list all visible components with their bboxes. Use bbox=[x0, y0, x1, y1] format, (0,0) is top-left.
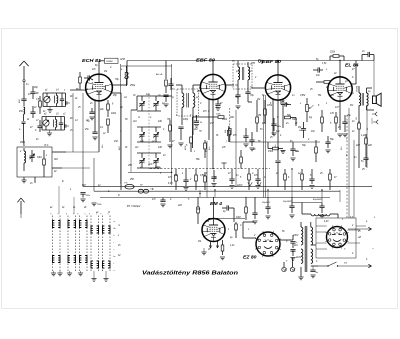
svg-text:3M: 3M bbox=[258, 115, 261, 117]
svg-text:440p: 440p bbox=[155, 166, 161, 169]
capacitor C23 bbox=[309, 178, 314, 180]
transformer ground bbox=[298, 276, 303, 278]
resistor R17 bbox=[197, 207, 200, 213]
oscillator box bbox=[17, 147, 52, 177]
wire v link 2 bbox=[291, 169, 293, 197]
resistor R31 bbox=[321, 117, 324, 123]
svg-text:25µ: 25µ bbox=[346, 115, 352, 117]
svg-text:pr: pr bbox=[171, 96, 174, 99]
antenna symbol bbox=[23, 66, 25, 79]
osc box exit wires bbox=[52, 151, 66, 153]
tube U3 EBF80 second bbox=[265, 75, 290, 100]
tuning gang section 1 bbox=[139, 103, 144, 105]
wire mid v1 bbox=[235, 110, 237, 187]
svg-text:20p: 20p bbox=[33, 87, 39, 89]
capacitor C21 bbox=[229, 178, 234, 180]
ground osc bbox=[21, 179, 26, 181]
svg-text:250: 250 bbox=[129, 179, 135, 181]
wire gang t1 bbox=[131, 109, 137, 111]
wire EBF80a grid bbox=[199, 87, 201, 89]
resistor R23 bbox=[248, 174, 251, 180]
wire top HT bus bbox=[127, 60, 352, 62]
antenna coupling node bbox=[23, 80, 25, 82]
capacitor C27 bbox=[168, 83, 173, 85]
wire speaker top bbox=[367, 87, 373, 89]
svg-text:AVC: AVC bbox=[118, 145, 121, 151]
mains transformer primary bbox=[301, 227, 303, 245]
resistor R15 fb bbox=[358, 123, 361, 129]
wire EBF80a cath down bbox=[212, 99, 214, 168]
wire ECH81 cathode down bbox=[98, 100, 100, 152]
capacitor C16 bbox=[342, 121, 347, 123]
ground c10 bbox=[215, 103, 220, 105]
resistor R7 bbox=[204, 143, 207, 149]
wire v link 1 bbox=[261, 61, 263, 65]
svg-text:s: s bbox=[114, 249, 115, 251]
oscillator coil L3 bbox=[24, 151, 26, 163]
volume pot bbox=[306, 105, 309, 112]
wire EBF80a right pin bbox=[225, 84, 234, 86]
resistor R24 bbox=[284, 174, 287, 180]
T2 core bbox=[241, 67, 243, 80]
capacitor C29 bbox=[290, 148, 295, 150]
svg-text:NS108: NS108 bbox=[357, 85, 359, 92]
cap right c1 bbox=[65, 101, 67, 105]
wire t2 gnd bbox=[235, 105, 240, 107]
wire EBF80b cath bbox=[277, 100, 279, 160]
trimmer C3 bbox=[43, 120, 49, 126]
ground C7 bbox=[89, 116, 94, 118]
resistor R29 bbox=[165, 80, 168, 86]
bus left ends bbox=[82, 152, 84, 187]
svg-text:5M: 5M bbox=[318, 95, 321, 97]
resistor R8 bbox=[229, 129, 232, 135]
IF transformer T1 box bbox=[177, 89, 199, 116]
svg-text:230V: 230V bbox=[292, 235, 299, 237]
svg-text:KL: KL bbox=[367, 128, 369, 130]
T1 top wires bbox=[176, 84, 182, 86]
capacitor C20 bbox=[183, 179, 188, 181]
svg-text:1M: 1M bbox=[298, 127, 301, 129]
svg-text:pr2: pr2 bbox=[235, 70, 240, 73]
svg-text:6,3V: 6,3V bbox=[168, 183, 173, 185]
resistor R16 fb2 bbox=[365, 138, 368, 144]
svg-text:25p: 25p bbox=[112, 95, 118, 97]
wire EBF80a anode up bbox=[212, 61, 214, 75]
svg-text:6,3V: 6,3V bbox=[324, 221, 329, 223]
resistor R4 bbox=[107, 119, 110, 125]
band switch section S5 bbox=[102, 216, 104, 272]
svg-text:300k: 300k bbox=[292, 119, 298, 121]
resistor R10 bbox=[285, 116, 291, 119]
wire EM4 bottom pins bbox=[210, 241, 212, 248]
svg-text:AV: AV bbox=[119, 106, 123, 109]
svg-text:AVC: AVC bbox=[147, 163, 153, 166]
wire ECH81 pin right2 bbox=[111, 92, 122, 94]
wire cluster2 bottom bbox=[42, 129, 65, 131]
band switch section S3 bbox=[79, 216, 81, 272]
svg-text:BT = 6324µ2: BT = 6324µ2 bbox=[127, 205, 141, 208]
capacitor C8 bbox=[92, 131, 97, 133]
oscillator resistor bbox=[43, 159, 46, 165]
gang mechanical link bbox=[148, 94, 150, 170]
svg-text:220: 220 bbox=[355, 145, 361, 147]
capacitor C18 bus bbox=[160, 199, 165, 201]
wire fb long bbox=[358, 140, 360, 168]
svg-text:1M: 1M bbox=[197, 209, 200, 211]
svg-text:150k: 150k bbox=[268, 151, 274, 153]
wire v link 3 bbox=[321, 190, 323, 202]
padder C2 bbox=[60, 98, 64, 100]
capacitor C10 bbox=[218, 116, 224, 119]
svg-text:2k2: 2k2 bbox=[193, 129, 198, 131]
svg-text:AVs 4k: AVs 4k bbox=[155, 73, 163, 76]
capacitor C30 bbox=[325, 141, 330, 143]
wire gang to T1 bbox=[161, 95, 172, 97]
MW antenna coil L1 bbox=[57, 96, 58, 104]
wire mains top bbox=[348, 228, 371, 230]
wire EBF80b pin a bbox=[272, 99, 274, 135]
ground cluster2 bbox=[47, 132, 52, 134]
wire EBF80b grid wire bbox=[252, 87, 266, 89]
speaker bbox=[373, 96, 377, 104]
cap 4n mains bbox=[310, 269, 315, 271]
wire EBF80b pin b bbox=[282, 99, 284, 128]
svg-text:40µ/350V: 40µ/350V bbox=[313, 198, 323, 201]
resistor R27 bbox=[39, 101, 42, 107]
capacitor C26 bbox=[37, 125, 42, 127]
wire right vertical low bbox=[366, 106, 368, 168]
resistor R30 bbox=[256, 117, 259, 123]
band switch section S2 bbox=[67, 216, 69, 272]
svg-text:450n: 450n bbox=[20, 141, 26, 144]
ground el84 bbox=[337, 133, 342, 135]
svg-text:AZ: AZ bbox=[357, 236, 362, 239]
T1 primary bbox=[182, 93, 184, 107]
tube U5 EM4 bbox=[202, 219, 225, 242]
capacitor C31 bbox=[249, 139, 254, 141]
wire osc link bbox=[66, 151, 99, 153]
T2 primary bbox=[238, 67, 240, 80]
switch ground 3 bbox=[67, 272, 72, 274]
capacitor C28 bbox=[163, 94, 168, 96]
wire ht to choke bbox=[262, 208, 268, 210]
mains transformer core bbox=[304, 226, 306, 272]
band switch section S1 bbox=[52, 216, 54, 272]
svg-text:0,5M: 0,5M bbox=[300, 95, 305, 97]
wire cluster1 top bbox=[43, 92, 66, 94]
resistor R22 bbox=[204, 176, 207, 182]
T2 trimmers bbox=[235, 94, 240, 96]
svg-text:30µ/50V: 30µ/50V bbox=[262, 202, 271, 204]
wire v link 8 bbox=[242, 197, 244, 222]
wire EM4 top bbox=[213, 197, 215, 219]
wire v link 5 bbox=[214, 190, 216, 197]
svg-text:U/3862: U/3862 bbox=[106, 61, 114, 63]
svg-text:EZ 80: EZ 80 bbox=[243, 255, 257, 260]
wire speaker leads bbox=[367, 109, 375, 111]
wire cluster2 top bbox=[42, 116, 65, 118]
wire AVC low bus bbox=[100, 197, 330, 199]
resistor R18 bbox=[235, 224, 238, 230]
wire v link 4 bbox=[267, 190, 269, 197]
oscillator trimmer C5 bbox=[29, 155, 34, 157]
EZ80 bottom jacks bbox=[282, 267, 286, 271]
tuning gang section 3 bbox=[139, 160, 144, 162]
wire EL84 anode up bbox=[339, 61, 341, 77]
capacitor C13 bbox=[301, 128, 306, 130]
capacitor C15 top right bbox=[367, 52, 369, 57]
transformer top leads bbox=[300, 222, 302, 227]
transformer sec wires bbox=[311, 244, 316, 246]
wire EZ80 top bbox=[267, 216, 269, 232]
IF transformer T2 box bbox=[233, 64, 252, 89]
wire v link 6 bbox=[199, 190, 201, 197]
capacitor C25 bbox=[30, 111, 35, 113]
ground mid1 bbox=[178, 142, 183, 144]
svg-text:EBF 80: EBF 80 bbox=[262, 59, 282, 64]
resistor R5 bbox=[169, 125, 172, 131]
resistor R32 bbox=[315, 147, 318, 153]
svg-text:1M: 1M bbox=[198, 241, 201, 243]
svg-text:250p: 250p bbox=[129, 85, 136, 87]
svg-text:110V: 110V bbox=[296, 257, 302, 259]
svg-text:25n: 25n bbox=[84, 129, 90, 131]
antenna series capacitor 450p bbox=[21, 98, 26, 100]
capacitor C19 bbox=[226, 205, 228, 210]
svg-text:100p: 100p bbox=[183, 119, 189, 121]
wire AVC bus y169 bbox=[150, 168, 270, 170]
capacitor C9 bbox=[178, 126, 183, 128]
wire ECH81 grid left bbox=[70, 89, 87, 91]
svg-text:30µ/300V: 30µ/300V bbox=[283, 201, 293, 203]
wire EBF80b anode up bbox=[277, 61, 279, 76]
svg-text:220: 220 bbox=[329, 95, 335, 97]
wire screen bbox=[351, 83, 357, 85]
capacitor C11 bbox=[271, 123, 276, 125]
tube U2 EBF80 bbox=[200, 74, 225, 99]
coupling C14 bbox=[317, 67, 319, 72]
svg-text:220: 220 bbox=[177, 205, 183, 207]
resistor R19 bbox=[221, 245, 224, 251]
junction dots top bus bbox=[212, 60, 213, 61]
wire left joiner bbox=[24, 85, 33, 87]
LW antenna coil L2 bbox=[56, 120, 57, 128]
socket wires left bbox=[316, 225, 327, 227]
wire EBF80a pin d1 bbox=[208, 99, 210, 140]
wire long vertical x73 bbox=[72, 93, 74, 152]
svg-text:OSC: OSC bbox=[37, 157, 42, 159]
resistor R11 bbox=[273, 147, 279, 150]
resistor R9 bbox=[264, 109, 267, 115]
wire heater bus 1 bbox=[83, 186, 372, 188]
output transformer secondary bbox=[367, 93, 369, 106]
label EBF 80 second bbox=[258, 60, 261, 63]
capacitor C22 bbox=[255, 178, 260, 180]
padder C4 bbox=[59, 122, 63, 124]
heater socket box bbox=[316, 218, 356, 258]
svg-text:EM 4: EM 4 bbox=[210, 201, 223, 206]
wire heater bus 2 bbox=[94, 190, 340, 192]
resistor R2 grid bbox=[79, 77, 82, 83]
svg-text:50µ: 50µ bbox=[330, 139, 335, 141]
output transformer core bbox=[361, 93, 363, 106]
tube U6 EZ80 bbox=[256, 232, 280, 256]
socket wires right bbox=[347, 229, 360, 231]
wire top bus right end bbox=[352, 60, 374, 62]
svg-text:100k: 100k bbox=[111, 113, 117, 115]
wire ECH81 anode to top bus bbox=[98, 61, 100, 76]
earth arrow bottom left bbox=[20, 201, 22, 214]
wire EZ80 right bbox=[280, 239, 293, 241]
svg-text:1M: 1M bbox=[257, 99, 260, 101]
capacitor C17 tone bbox=[363, 157, 368, 159]
resistor R3 bbox=[107, 104, 110, 110]
wire long vertical x83 up bbox=[82, 93, 84, 152]
capacitor C24 bbox=[30, 91, 35, 93]
wire ECH81 pin right1 bbox=[111, 84, 127, 86]
T1 secondary bbox=[193, 93, 195, 107]
switch ground 2 bbox=[57, 272, 62, 274]
trimmer C1 bbox=[44, 96, 50, 102]
wire box join bbox=[99, 60, 105, 62]
resistor R34 bbox=[245, 207, 248, 213]
ground C8 bbox=[92, 136, 97, 138]
wire xv1 bbox=[165, 61, 167, 80]
svg-text:pr: pr bbox=[351, 92, 354, 95]
wire cluster drop a bbox=[55, 130, 57, 152]
wire EZ80 left bbox=[243, 237, 256, 239]
capacitor C7 bbox=[89, 111, 94, 113]
wire EL84 cathode down bbox=[339, 101, 341, 130]
switch ground 5 bbox=[91, 278, 96, 280]
resistor R6 bbox=[190, 137, 193, 143]
svg-text:250: 250 bbox=[127, 165, 133, 167]
switch ground 6 bbox=[103, 278, 108, 280]
band switch section S4 bbox=[90, 216, 92, 272]
svg-text:220V: 220V bbox=[236, 185, 243, 187]
svg-text:U/38: U/38 bbox=[120, 59, 126, 61]
resistor R21 bbox=[195, 175, 198, 181]
switch ground 1 bbox=[51, 272, 56, 274]
antenna choke bbox=[24, 107, 25, 114]
switch ground 4 bbox=[78, 272, 83, 274]
ground em4b bbox=[220, 256, 225, 258]
junctions y169 bbox=[212, 168, 213, 169]
svg-text:220k: 220k bbox=[329, 52, 336, 54]
grid stopper R12 bbox=[324, 81, 330, 84]
resistor R25 bbox=[301, 174, 304, 180]
output transformer primary bbox=[359, 93, 361, 106]
svg-text:~: ~ bbox=[372, 247, 374, 251]
resistor R28 bbox=[125, 73, 128, 79]
svg-text:5M: 5M bbox=[206, 221, 209, 223]
resistor R20 bbox=[175, 175, 178, 181]
tube socket view bbox=[327, 227, 348, 248]
resistor R13 top bbox=[333, 55, 339, 58]
svg-text:Vadásztöltény R856 Balaton: Vadásztöltény R856 Balaton bbox=[142, 271, 239, 277]
svg-text:1M: 1M bbox=[104, 71, 107, 73]
svg-text:100k: 100k bbox=[222, 119, 228, 121]
mains transformer secondary bbox=[311, 227, 313, 245]
resistor R33 bbox=[240, 157, 243, 163]
capacitor C12 bbox=[284, 102, 286, 106]
capacitor C33 bbox=[252, 212, 257, 214]
T2 secondary bbox=[248, 67, 250, 80]
cap right c2 bbox=[64, 124, 66, 128]
svg-text:EL 84: EL 84 bbox=[345, 63, 359, 68]
wire band-switch feed 1 bbox=[58, 186, 60, 214]
fuse F1 bbox=[125, 184, 134, 189]
svg-text:RV: RV bbox=[350, 105, 354, 107]
svg-text:2n7: 2n7 bbox=[209, 123, 215, 125]
ground bus left bbox=[80, 192, 85, 194]
ground em4 bbox=[201, 251, 206, 253]
wire v link 7 bbox=[339, 190, 341, 202]
dial lamp box U386 bbox=[105, 58, 119, 63]
tube U1 ECH81 bbox=[86, 74, 113, 101]
svg-text:10M: 10M bbox=[236, 217, 241, 219]
capacitor C32 bbox=[243, 135, 248, 137]
filter choke bbox=[311, 214, 330, 216]
T1 leads bbox=[181, 85, 183, 93]
wire band-switch feed 2 bbox=[73, 197, 75, 214]
tube U4 EL84 bbox=[328, 77, 352, 101]
grid capacitor C6 bbox=[87, 75, 89, 80]
wire cluster1 bottom bbox=[43, 106, 66, 108]
wire right vertical bbox=[373, 61, 375, 97]
resistor R14 bbox=[335, 117, 338, 123]
mains switch bbox=[318, 265, 328, 267]
svg-text:200n: 200n bbox=[276, 126, 282, 128]
wire ECH81 pin down left bbox=[94, 100, 96, 130]
ground cluster1 bbox=[47, 109, 52, 111]
T2 leads bbox=[237, 61, 239, 68]
T1 core bbox=[186, 93, 188, 108]
jack symbols bbox=[372, 112, 377, 116]
svg-text:220: 220 bbox=[367, 145, 373, 147]
tuning gang section 2 bbox=[139, 134, 144, 136]
resistor R26 bbox=[329, 174, 332, 180]
